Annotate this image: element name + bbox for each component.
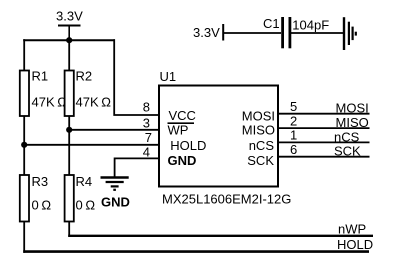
svg-text:47K Ω: 47K Ω [32, 95, 68, 110]
wire HOLD net (R1 column to pin 7) [24, 144, 159, 146]
svg-text:8: 8 [143, 99, 150, 114]
svg-text:MX25L1606EM2I-12G: MX25L1606EM2I-12G [162, 192, 291, 207]
svg-text:6: 6 [290, 142, 297, 157]
ground symbol GND (left) [101, 178, 129, 190]
svg-text:SCK: SCK [247, 153, 274, 168]
resistor R1 [20, 71, 29, 117]
svg-text:3: 3 [143, 115, 150, 130]
svg-text:4: 4 [143, 144, 150, 159]
svg-text:0 Ω: 0 Ω [76, 198, 96, 213]
capacitor C1 [283, 17, 290, 48]
svg-text:5: 5 [290, 99, 297, 114]
resistor R2 [65, 71, 74, 117]
wire WP net (R2 column to pin 3) [69, 129, 159, 131]
svg-text:1: 1 [290, 128, 297, 143]
junction dot R2 column / WP wire [66, 127, 72, 133]
wire VCC branch (rail to pin 8) [114, 39, 159, 115]
wire rail down to R2 [68, 39, 70, 71]
wire R4 to nWP net [68, 222, 70, 237]
svg-text:MISO: MISO [336, 115, 369, 130]
svg-text:7: 7 [145, 130, 152, 145]
svg-text:HOLD: HOLD [170, 138, 206, 153]
resistor R4 [65, 175, 74, 222]
svg-text:3.3V: 3.3V [56, 9, 83, 24]
wire 3.3V rail [23, 39, 115, 41]
wire MISO (pin 2) [277, 127, 370, 129]
junction dot rail / R2 column [66, 37, 72, 43]
svg-text:3.3V: 3.3V [193, 25, 220, 40]
resistor R3 [20, 175, 29, 222]
wire GND pin 4 to ground symbol [115, 158, 159, 176]
svg-text:0 Ω: 0 Ω [32, 198, 52, 213]
svg-text:HOLD: HOLD [337, 237, 373, 252]
wire SCK (pin 6) [277, 156, 370, 158]
svg-text:GND: GND [168, 153, 197, 168]
svg-text:nCS: nCS [249, 138, 275, 153]
svg-text:GND: GND [101, 195, 130, 210]
svg-text:MISO: MISO [242, 122, 275, 137]
svg-text:2: 2 [290, 113, 297, 128]
wire R1 to R3 [23, 116, 25, 175]
svg-text:47K Ω: 47K Ω [76, 95, 112, 110]
wire MOSI (pin 5) [277, 113, 370, 115]
svg-text:R1: R1 [32, 69, 49, 84]
wire nWP net (bottom) [68, 235, 373, 237]
svg-text:WP: WP [168, 122, 189, 137]
svg-text:R3: R3 [32, 174, 49, 189]
svg-text:VCC: VCC [169, 108, 196, 123]
terminal stub 3.3V (top-right) [222, 24, 224, 41]
svg-text:SCK: SCK [334, 144, 361, 159]
svg-text:MOSI: MOSI [336, 101, 369, 116]
wire nCS (pin 1) [277, 141, 370, 143]
svg-text:R2: R2 [76, 69, 93, 84]
svg-text:R4: R4 [76, 174, 93, 189]
IC U1 body [159, 86, 278, 187]
svg-text:nCS: nCS [334, 129, 360, 144]
wire 3.3V to C1 [223, 32, 281, 34]
junction dot R1 column / HOLD wire [21, 142, 27, 148]
wire R2 to R4 [68, 116, 70, 175]
svg-text:U1: U1 [160, 69, 177, 84]
svg-text:C1: C1 [263, 16, 280, 31]
svg-text:nWP: nWP [338, 221, 366, 236]
ground symbol (top-right) [344, 17, 356, 50]
pin label WP overline [168, 122, 195, 124]
wire R3 to HOLD net [23, 222, 25, 253]
power symbol 3.3V (top-left) [58, 26, 81, 42]
svg-text:MOSI: MOSI [242, 109, 275, 124]
wire HOLD net (bottom) [23, 250, 369, 253]
wire C1 to ground [291, 32, 344, 34]
svg-text:104pF: 104pF [292, 18, 329, 33]
wire rail down to R1 [23, 39, 25, 71]
